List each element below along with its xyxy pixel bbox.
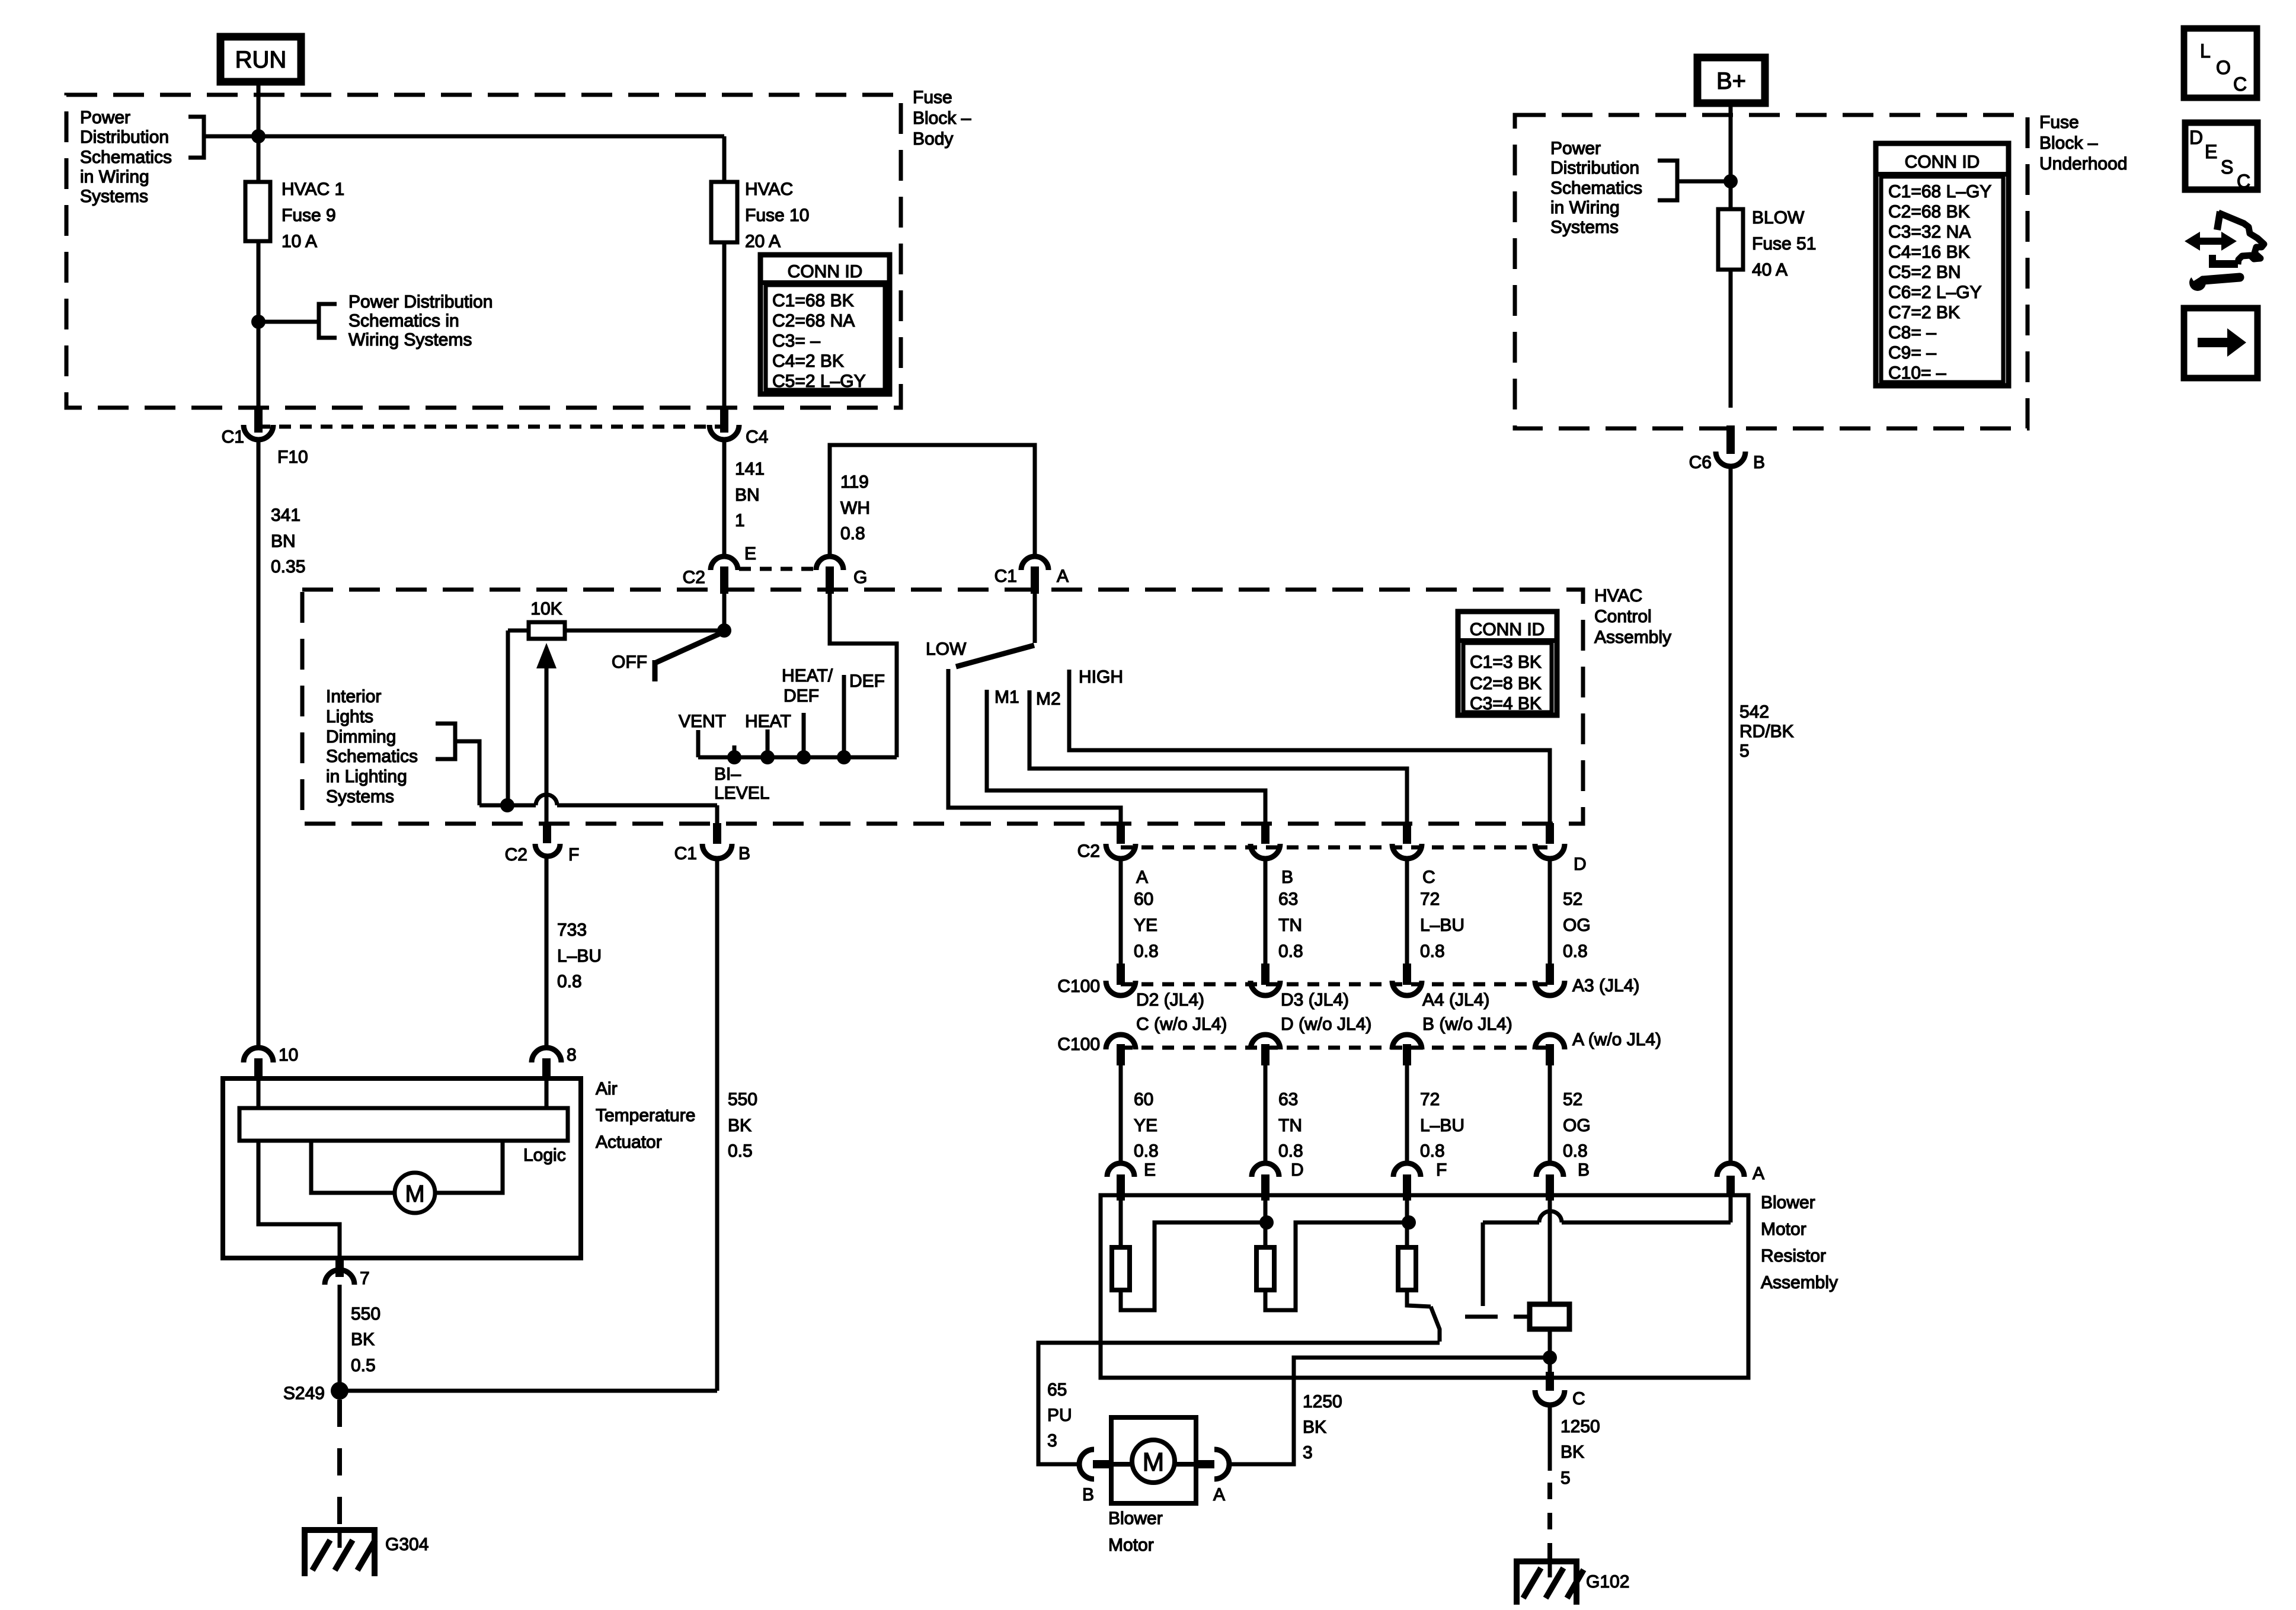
svg-text:0.8: 0.8 [840, 524, 865, 543]
svg-text:40 A: 40 A [1752, 260, 1787, 280]
svg-text:L: L [2200, 40, 2211, 62]
svg-text:Schematics: Schematics [1550, 178, 1642, 198]
svg-text:BK: BK [728, 1116, 752, 1135]
svg-text:O: O [2216, 57, 2231, 78]
svg-text:3: 3 [1303, 1443, 1313, 1462]
svg-text:C10= –: C10= – [1888, 363, 1946, 383]
svg-text:L–BU: L–BU [557, 946, 602, 966]
svg-text:60: 60 [1134, 1090, 1153, 1109]
svg-text:F: F [568, 845, 579, 865]
svg-text:Schematics: Schematics [326, 747, 418, 766]
svg-text:C1: C1 [674, 844, 697, 863]
svg-text:TN: TN [1278, 1116, 1302, 1135]
svg-text:B: B [1082, 1485, 1094, 1505]
svg-text:G304: G304 [385, 1535, 428, 1554]
svg-text:1: 1 [735, 511, 745, 530]
svg-text:Air: Air [596, 1079, 618, 1099]
svg-text:B: B [1578, 1160, 1590, 1180]
svg-text:WH: WH [840, 498, 870, 518]
svg-text:L–BU: L–BU [1420, 1116, 1464, 1135]
svg-text:BLOW: BLOW [1752, 208, 1805, 228]
svg-text:Systems: Systems [1550, 217, 1619, 237]
svg-text:65: 65 [1047, 1380, 1067, 1400]
svg-text:Temperature: Temperature [596, 1106, 695, 1125]
svg-text:72: 72 [1420, 889, 1440, 909]
svg-text:52: 52 [1563, 1090, 1582, 1109]
svg-text:A3 (JL4): A3 (JL4) [1572, 976, 1639, 996]
svg-text:Underhood: Underhood [2039, 154, 2127, 174]
svg-text:C2=68 NA: C2=68 NA [772, 311, 855, 331]
svg-text:C: C [2233, 73, 2247, 95]
svg-text:C6=2 L–GY: C6=2 L–GY [1888, 283, 1982, 302]
svg-text:S249: S249 [283, 1384, 325, 1403]
svg-text:LOW: LOW [926, 639, 967, 659]
svg-text:HIGH: HIGH [1079, 667, 1123, 687]
svg-text:C5=2 L–GY: C5=2 L–GY [772, 372, 866, 391]
svg-text:D: D [1291, 1160, 1304, 1180]
svg-text:OG: OG [1563, 1116, 1591, 1135]
svg-text:C100: C100 [1057, 977, 1100, 996]
svg-text:Body: Body [913, 129, 953, 149]
svg-text:Lights: Lights [326, 707, 373, 726]
svg-text:0.5: 0.5 [728, 1141, 753, 1161]
svg-text:D2 (JL4): D2 (JL4) [1136, 990, 1204, 1010]
svg-text:PU: PU [1047, 1406, 1072, 1425]
svg-text:C6: C6 [1689, 453, 1712, 472]
svg-text:Blower: Blower [1761, 1193, 1815, 1212]
svg-text:72: 72 [1420, 1090, 1440, 1109]
svg-text:Power: Power [1550, 139, 1601, 158]
svg-text:G: G [853, 568, 867, 587]
svg-text:G102: G102 [1586, 1572, 1629, 1592]
svg-text:0.5: 0.5 [351, 1356, 376, 1375]
svg-text:119: 119 [840, 472, 869, 492]
svg-text:10: 10 [279, 1045, 298, 1065]
svg-text:M: M [1143, 1448, 1165, 1477]
svg-text:C1: C1 [994, 566, 1017, 586]
svg-text:63: 63 [1278, 1090, 1298, 1109]
svg-text:C2: C2 [683, 568, 705, 587]
svg-text:E: E [1144, 1160, 1156, 1180]
svg-text:Dimming: Dimming [326, 727, 396, 747]
svg-text:D (w/o JL4): D (w/o JL4) [1281, 1014, 1371, 1034]
svg-text:52: 52 [1563, 889, 1582, 909]
svg-text:L–BU: L–BU [1420, 916, 1464, 935]
svg-text:Block –: Block – [2039, 133, 2098, 153]
svg-text:BK: BK [351, 1330, 375, 1349]
svg-text:C: C [1422, 868, 1435, 887]
svg-text:YE: YE [1134, 1116, 1157, 1135]
svg-text:Schematics in: Schematics in [348, 311, 459, 331]
svg-text:5: 5 [1739, 741, 1750, 761]
svg-text:Assembly: Assembly [1594, 628, 1671, 647]
svg-text:HEAT: HEAT [745, 712, 791, 731]
svg-text:B: B [1281, 868, 1293, 887]
svg-text:542: 542 [1739, 702, 1769, 722]
svg-text:B+: B+ [1716, 68, 1746, 94]
svg-text:C3=32 NA: C3=32 NA [1888, 222, 1971, 242]
svg-text:550: 550 [351, 1304, 380, 1324]
svg-text:Fuse 51: Fuse 51 [1752, 234, 1816, 254]
svg-text:C1=68 L–GY: C1=68 L–GY [1888, 182, 1991, 201]
svg-text:DEF: DEF [849, 671, 885, 691]
svg-text:A4 (JL4): A4 (JL4) [1422, 990, 1489, 1010]
svg-text:OFF: OFF [612, 652, 647, 672]
svg-text:F10: F10 [277, 447, 308, 467]
svg-text:Power Distribution: Power Distribution [348, 292, 493, 312]
svg-text:A: A [1136, 868, 1148, 887]
svg-text:A: A [1213, 1485, 1225, 1505]
svg-text:733: 733 [557, 920, 587, 940]
svg-text:Power: Power [80, 108, 130, 127]
svg-text:D: D [2189, 127, 2203, 148]
svg-text:3: 3 [1047, 1431, 1057, 1451]
svg-text:BI–: BI– [714, 764, 741, 784]
svg-text:C2=8 BK: C2=8 BK [1470, 674, 1542, 693]
svg-text:BN: BN [735, 485, 760, 505]
svg-text:Fuse 9: Fuse 9 [282, 206, 336, 225]
svg-text:Logic: Logic [523, 1145, 566, 1165]
svg-text:Wiring Systems: Wiring Systems [348, 330, 472, 350]
svg-text:10 A: 10 A [282, 232, 317, 251]
svg-text:C4=16 BK: C4=16 BK [1888, 242, 1970, 262]
svg-text:C2: C2 [505, 845, 527, 865]
svg-text:BK: BK [1303, 1417, 1326, 1437]
svg-text:Actuator: Actuator [596, 1132, 662, 1152]
svg-text:60: 60 [1134, 889, 1153, 909]
svg-text:5: 5 [1560, 1468, 1571, 1488]
svg-text:BN: BN [271, 532, 296, 551]
svg-text:0.8: 0.8 [1420, 942, 1445, 961]
svg-text:Assembly: Assembly [1761, 1273, 1838, 1292]
svg-text:20 A: 20 A [745, 232, 781, 251]
svg-text:HVAC: HVAC [1594, 586, 1642, 606]
svg-text:VENT: VENT [679, 712, 726, 731]
svg-text:10K: 10K [530, 599, 562, 619]
svg-text:550: 550 [728, 1090, 757, 1109]
svg-text:RUN: RUN [235, 47, 287, 73]
svg-text:Block –: Block – [913, 108, 971, 128]
svg-text:Systems: Systems [80, 187, 148, 206]
svg-text:C3= –: C3= – [772, 331, 820, 351]
svg-text:LEVEL: LEVEL [714, 783, 769, 803]
svg-text:E: E [2205, 141, 2217, 162]
svg-text:C (w/o JL4): C (w/o JL4) [1136, 1014, 1227, 1034]
svg-text:0.8: 0.8 [1563, 1141, 1588, 1161]
svg-text:C4=2 BK: C4=2 BK [772, 351, 844, 371]
svg-text:Motor: Motor [1761, 1219, 1806, 1239]
svg-text:C1=3 BK: C1=3 BK [1470, 652, 1542, 672]
svg-text:HEAT/: HEAT/ [782, 666, 833, 686]
svg-text:C5=2 BN: C5=2 BN [1888, 263, 1961, 282]
svg-text:Schematics: Schematics [80, 148, 172, 167]
svg-text:C2: C2 [1077, 841, 1100, 861]
svg-text:in Wiring: in Wiring [1550, 198, 1620, 217]
svg-text:0.8: 0.8 [1278, 1141, 1303, 1161]
svg-text:1250: 1250 [1303, 1392, 1342, 1411]
svg-text:C8= –: C8= – [1888, 323, 1936, 343]
svg-text:C1=68 BK: C1=68 BK [772, 291, 854, 311]
svg-text:A: A [1753, 1164, 1764, 1183]
svg-text:63: 63 [1278, 889, 1298, 909]
svg-text:D: D [1574, 854, 1587, 874]
svg-text:B: B [738, 844, 750, 863]
svg-text:0.8: 0.8 [1420, 1141, 1445, 1161]
svg-text:M1: M1 [994, 687, 1019, 707]
svg-text:Distribution: Distribution [1550, 158, 1639, 178]
svg-text:E: E [744, 544, 756, 564]
svg-text:Fuse: Fuse [2039, 113, 2079, 132]
svg-text:Fuse: Fuse [913, 88, 952, 107]
svg-text:S: S [2221, 156, 2233, 178]
svg-text:Distribution: Distribution [80, 127, 169, 147]
svg-text:C2=68 BK: C2=68 BK [1888, 202, 1970, 222]
svg-text:in Lighting: in Lighting [326, 767, 407, 786]
svg-text:Systems: Systems [326, 787, 394, 806]
svg-text:HVAC: HVAC [745, 180, 793, 199]
svg-text:1250: 1250 [1560, 1417, 1600, 1436]
svg-text:0.8: 0.8 [1134, 1141, 1159, 1161]
svg-text:C100: C100 [1057, 1035, 1100, 1054]
svg-text:341: 341 [271, 505, 300, 525]
svg-text:HVAC 1: HVAC 1 [282, 180, 344, 199]
svg-text:C3=4 BK: C3=4 BK [1470, 694, 1542, 713]
svg-text:Control: Control [1594, 607, 1652, 626]
svg-text:0.8: 0.8 [1134, 942, 1159, 961]
svg-text:F: F [1436, 1160, 1447, 1180]
svg-text:D3 (JL4): D3 (JL4) [1281, 990, 1349, 1010]
svg-text:C: C [2237, 171, 2250, 192]
svg-text:M: M [405, 1181, 424, 1207]
svg-text:CONN ID: CONN ID [1905, 152, 1980, 172]
svg-text:B (w/o JL4): B (w/o JL4) [1422, 1014, 1512, 1034]
svg-text:C9= –: C9= – [1888, 343, 1936, 363]
svg-text:0.8: 0.8 [1278, 942, 1303, 961]
svg-text:A: A [1057, 566, 1069, 586]
svg-text:CONN ID: CONN ID [1470, 620, 1545, 639]
svg-text:Motor: Motor [1108, 1535, 1154, 1555]
svg-text:YE: YE [1134, 916, 1157, 935]
svg-text:Interior: Interior [326, 687, 381, 706]
svg-text:Resistor: Resistor [1761, 1246, 1826, 1266]
svg-text:CONN ID: CONN ID [788, 262, 863, 281]
svg-text:141: 141 [735, 459, 765, 479]
svg-text:C: C [1572, 1389, 1585, 1409]
svg-text:M2: M2 [1036, 689, 1061, 709]
svg-text:Fuse 10: Fuse 10 [745, 206, 809, 225]
svg-text:C7=2 BK: C7=2 BK [1888, 303, 1960, 322]
svg-text:0.8: 0.8 [1563, 942, 1588, 961]
svg-text:0.8: 0.8 [557, 972, 582, 991]
svg-text:DEF: DEF [784, 686, 819, 706]
svg-text:Blower: Blower [1108, 1509, 1163, 1528]
svg-text:OG: OG [1563, 916, 1591, 935]
svg-text:8: 8 [567, 1045, 577, 1065]
svg-text:in Wiring: in Wiring [80, 167, 149, 187]
svg-text:0.35: 0.35 [271, 557, 305, 577]
svg-text:BK: BK [1560, 1442, 1584, 1462]
svg-text:RD/BK: RD/BK [1739, 722, 1794, 741]
svg-text:C4: C4 [746, 427, 768, 447]
svg-text:7: 7 [360, 1269, 370, 1288]
svg-text:B: B [1753, 453, 1765, 472]
svg-text:C1: C1 [222, 427, 244, 447]
svg-text:TN: TN [1278, 916, 1302, 935]
svg-text:A (w/o JL4): A (w/o JL4) [1572, 1030, 1661, 1049]
